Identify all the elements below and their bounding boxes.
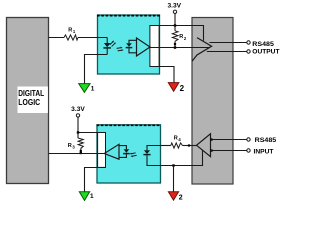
RS485 receiver U5 (197, 134, 211, 157)
optocoupler U2 pin notch (150, 26, 159, 67)
transceiver block gray box (192, 18, 233, 185)
svg-text:RS485: RS485 (255, 137, 277, 144)
wire: opto U3 ground to isolated ground 1 (85, 168, 106, 192)
3.3V supply terminal bottom (71, 106, 85, 132)
svg-text:R: R (174, 135, 178, 141)
wire: driver output A to RS485 terminal (210, 41, 275, 48)
output amplifier U2 (137, 38, 151, 56)
svg-text:R: R (179, 34, 183, 40)
LED D1 inside opto U2 (103, 38, 111, 55)
wire: RS485 terminal to receiver input A (210, 137, 276, 144)
svg-text:3.3V: 3.3V (168, 2, 182, 9)
wire: opto U2 output to driver input (150, 46, 209, 48)
svg-text:2: 2 (180, 84, 185, 93)
photodiode U3 (119, 146, 130, 158)
svg-text:3.3V: 3.3V (71, 106, 85, 113)
svg-text:2: 2 (179, 194, 183, 201)
wire: receiver / LED cathode to isolated ground 2 (161, 150, 203, 191)
svg-text:R: R (68, 143, 72, 149)
wire: 3.3V rail from opto U2 VDD to driver (150, 24, 204, 40)
isolated ground 2 arrow (top) (168, 83, 184, 93)
optocoupler U2 box (97, 15, 160, 74)
LED D1 emission arrows (110, 41, 116, 47)
wire: 3.3V rail to opto U3 VDD (77, 131, 106, 133)
svg-text:1: 1 (91, 86, 95, 93)
LED D2 inside opto U3 (143, 146, 160, 166)
wire: INPUT terminal to receiver input B (210, 148, 274, 155)
svg-text:INPUT: INPUT (254, 148, 275, 155)
resistor R3 (68, 133, 84, 155)
svg-text:LOGIC: LOGIC (18, 98, 40, 107)
svg-text:RS485: RS485 (252, 41, 274, 48)
wire: opto U2 ground to isolated ground 2 (150, 67, 174, 83)
RS485 driver U4 (192, 38, 212, 62)
optocoupler U3 box (97, 125, 162, 183)
light path arrows U2 (117, 47, 124, 51)
isolated ground 2 arrow (bottom) (168, 192, 182, 202)
wire: driver output B to OUTPUT terminal (207, 48, 281, 55)
wire: digital logic to R1 to opto LED (49, 37, 108, 39)
digital logic block U1 (7, 18, 49, 184)
svg-text:R: R (68, 27, 72, 33)
resistor R2 (172, 26, 187, 48)
svg-text:1: 1 (90, 193, 94, 200)
isolated ground 1 arrow (top) (79, 84, 95, 93)
svg-text:DIGITAL: DIGITAL (18, 89, 44, 98)
optocoupler U3 pin notch (98, 133, 106, 168)
resistor R1 (64, 27, 78, 41)
svg-text:OUTPUT: OUTPUT (252, 48, 280, 55)
isolated ground 1 arrow (bottom) (79, 192, 94, 201)
wire: digital logic to opto U3 output (49, 153, 105, 155)
photodiode U2 (126, 40, 137, 53)
3.3V supply terminal top (168, 2, 182, 25)
resistor R4 (160, 135, 197, 148)
output amplifier U3 (104, 144, 119, 159)
light path arrows U3 (130, 153, 137, 157)
wire: opto U2 LED cathode to isolated ground 1 (85, 55, 108, 84)
